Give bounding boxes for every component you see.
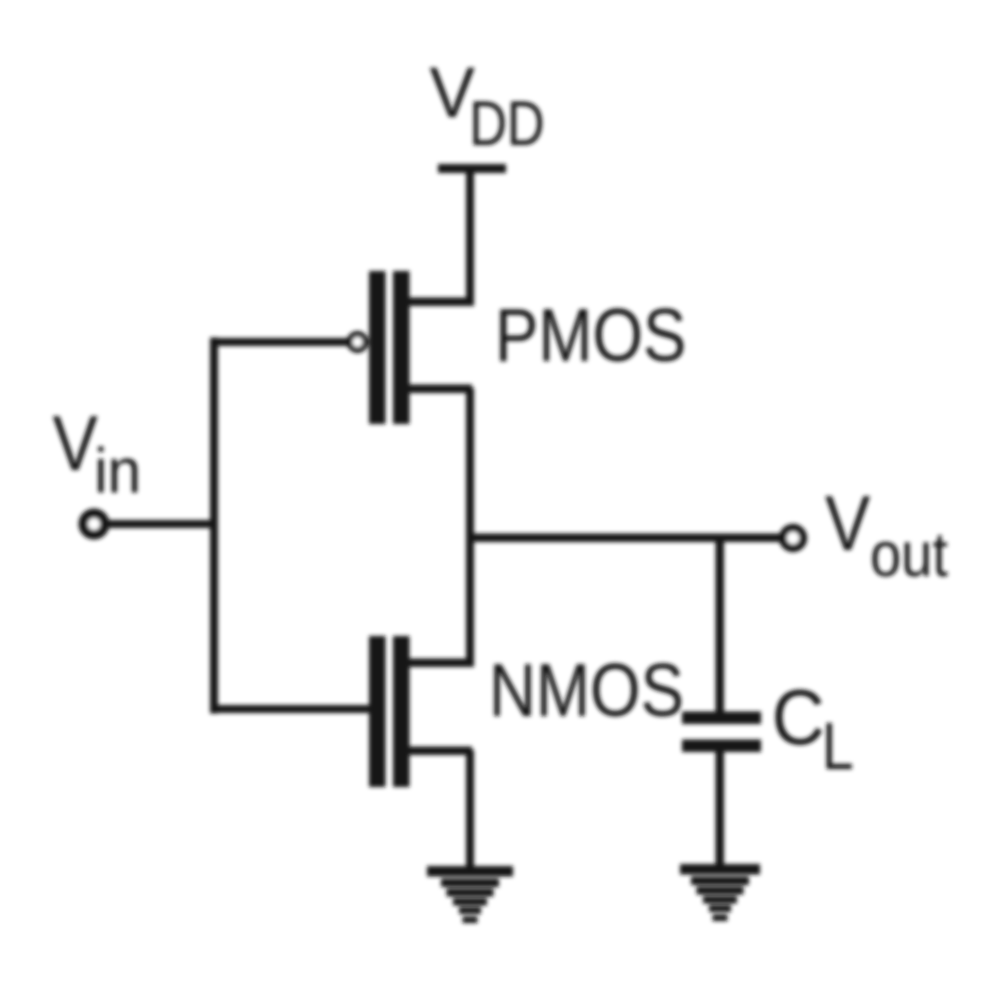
nmos NMOS channel bar — [393, 636, 410, 787]
node Vin terminal circle — [83, 513, 105, 535]
ground left — [427, 866, 513, 923]
ground right — [680, 864, 760, 921]
wire capacitor to ground — [716, 750, 725, 874]
wire NMOS source to ground — [466, 750, 474, 876]
label PMOS — [495, 294, 686, 377]
svg-text:out: out — [870, 519, 948, 590]
node Vout terminal circle — [783, 528, 803, 548]
wire output horizontal — [466, 534, 782, 543]
nmos NMOS gate bar — [369, 636, 386, 787]
capacitor CL bottom plate — [682, 740, 761, 753]
wire input vertical bus — [210, 338, 218, 714]
svg-text:in: in — [94, 436, 141, 507]
nmos NMOS source stub — [406, 747, 472, 756]
label NMOS — [489, 649, 684, 732]
svg-text:DD: DD — [469, 88, 544, 159]
svg-text:L: L — [822, 710, 854, 784]
wire output to capacitor — [716, 536, 725, 714]
node VDD label — [430, 53, 545, 160]
node Vin label — [53, 400, 142, 507]
svg-text:PMOS: PMOS — [495, 294, 686, 377]
capacitor CL top plate — [682, 712, 761, 725]
wire PMOS gate — [214, 338, 348, 346]
svg-text:V: V — [53, 400, 98, 488]
wire NMOS gate — [214, 705, 370, 713]
pmos PMOS source stub — [406, 298, 472, 307]
pmos PMOS drain stub — [406, 385, 472, 394]
pmos PMOS gate bubble — [350, 334, 366, 350]
pmos PMOS channel bar — [393, 271, 410, 424]
wire PMOS drain to NMOS drain (output node) — [466, 388, 474, 667]
wire VDD rail to PMOS source — [466, 166, 474, 306]
svg-text:V: V — [825, 480, 870, 568]
svg-text:NMOS: NMOS — [489, 649, 684, 732]
wire input Vin horizontal — [106, 520, 218, 528]
nmos NMOS drain stub — [406, 659, 472, 668]
pmos PMOS gate bar — [369, 271, 386, 424]
power rail VDD — [438, 164, 506, 173]
capacitor CL label — [772, 674, 854, 784]
node Vout label — [825, 480, 948, 590]
svg-text:C: C — [772, 674, 825, 762]
